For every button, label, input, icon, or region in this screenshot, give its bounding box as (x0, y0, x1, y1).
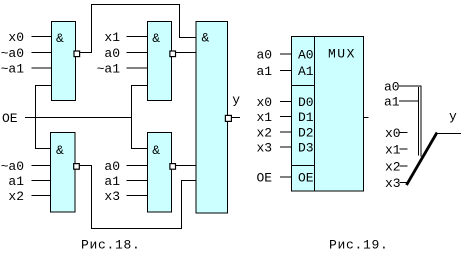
switch model: wire a1 (399, 100, 419, 102)
svg-text:x1: x1 (257, 110, 273, 125)
svg-text:~a0: ~a0 (1, 46, 24, 61)
svg-text:x2: x2 (257, 126, 273, 141)
wire OE branch to U1 pin4 (36, 86, 52, 118)
switch model: inner bus line (418, 87, 420, 156)
svg-text:A0: A0 (298, 48, 314, 63)
mux U6 body (292, 37, 364, 192)
wire a1 to A1 (280, 70, 292, 72)
wire ~a0 to U3 pin2 (32, 165, 51, 167)
mux U6 separator A/D (292, 85, 315, 87)
svg-text:a1: a1 (8, 174, 24, 189)
U5 output bubble (225, 115, 231, 121)
svg-text:D0: D0 (298, 95, 314, 110)
svg-text:x3: x3 (385, 176, 401, 191)
wire ~a1 to U1 pin3 (32, 67, 52, 69)
svg-text:A1: A1 (298, 64, 314, 79)
wire U2 output to U5 input2 (176, 52, 197, 54)
svg-text:a1: a1 (384, 95, 400, 110)
svg-text:Рис.19.: Рис.19. (329, 238, 389, 253)
svg-text:&: & (152, 31, 160, 46)
nand gate U3 body (51, 133, 76, 213)
nand gate U2 body (148, 22, 172, 101)
svg-text:a0: a0 (257, 48, 273, 63)
wire x2 to D2 (280, 131, 292, 133)
svg-text:OE: OE (257, 171, 273, 186)
switch model: contact stub x2 (400, 165, 408, 167)
nand gate U5 body (196, 22, 228, 214)
U2 output bubble (170, 51, 176, 57)
svg-text:x1: x1 (104, 30, 120, 45)
wire x3 to U4 pin4 (127, 195, 148, 197)
svg-text:a1: a1 (257, 64, 273, 79)
svg-text:&: & (202, 31, 210, 46)
wire U3 output to U5 input4 (80, 166, 197, 229)
wire U5 output y (232, 117, 240, 119)
svg-text:x3: x3 (257, 141, 273, 156)
switch model: contact stub x0 (400, 132, 408, 134)
svg-text:D1: D1 (298, 110, 314, 125)
svg-text:x0: x0 (257, 95, 273, 110)
U1 output bubble (74, 51, 80, 57)
switch model: contact stub x3 (400, 182, 408, 184)
wire x1 to U2 pin1 (127, 36, 148, 38)
mux U6 output stub (364, 117, 369, 119)
switch model: wire a0 and outer bus line (399, 86, 421, 157)
mux U6 divider (314, 37, 316, 192)
svg-text:x0: x0 (8, 30, 24, 45)
U3 output bubble (74, 164, 80, 170)
svg-text:~a0: ~a0 (1, 159, 24, 174)
svg-text:&: & (56, 143, 64, 158)
svg-text:x1: x1 (385, 143, 401, 158)
svg-text:D3: D3 (298, 141, 314, 156)
wire U4 output to U5 input3 (176, 165, 197, 167)
svg-text:a0: a0 (104, 159, 120, 174)
svg-text:a0: a0 (384, 80, 400, 95)
svg-text:y: y (449, 109, 457, 124)
wire OE branch to U4 pin1 (132, 118, 148, 149)
svg-text:x2: x2 (8, 189, 24, 204)
wire ~a0 to U1 pin2 (32, 52, 52, 54)
svg-text:x0: x0 (385, 126, 401, 141)
svg-text:&: & (56, 31, 64, 46)
mux U6 separator D/OE (292, 165, 315, 167)
wire OE branch to U2 pin4 (132, 86, 148, 118)
svg-text:x3: x3 (104, 189, 120, 204)
wire OE branch to U3 pin1 (36, 118, 51, 149)
svg-text:&: & (152, 143, 160, 158)
wire OE to OE pin (280, 176, 292, 178)
wire x3 to D3 (280, 146, 292, 148)
wire x1 to D1 (280, 116, 292, 118)
wire a0 to A0 (280, 53, 292, 55)
svg-text:a0: a0 (104, 46, 120, 61)
wire x0 to U1 pin1 (32, 36, 52, 38)
svg-text:D2: D2 (298, 126, 314, 141)
nand gate U4 body (148, 133, 172, 213)
wire x0 to D0 (280, 101, 292, 103)
wire U1 output to U5 input1 (80, 5, 197, 53)
svg-text:~a1: ~a1 (1, 62, 25, 77)
nand gate U1 body (52, 22, 76, 101)
svg-text:MUX: MUX (328, 47, 356, 62)
wire x2 to U3 pin4 (32, 195, 51, 197)
svg-text:Рис.18.: Рис.18. (81, 238, 141, 253)
svg-text:~a1: ~a1 (97, 62, 121, 77)
switch model: contact stub x1 (400, 148, 408, 150)
wire OE bus (25, 117, 132, 119)
wire ~a1 to U2 pin3 (127, 67, 148, 69)
svg-text:y: y (232, 93, 240, 108)
svg-text:x2: x2 (385, 160, 401, 175)
svg-text:OE: OE (298, 171, 314, 186)
wire a1 to U3 pin3 (32, 180, 51, 182)
wire a0 to U4 pin2 (127, 165, 148, 167)
svg-text:a1: a1 (104, 174, 120, 189)
wire a1 to U4 pin3 (127, 180, 148, 182)
switch model: wire output y (438, 133, 462, 135)
switch model: wiper arm (407, 133, 438, 186)
svg-text:OE: OE (2, 111, 18, 126)
U4 output bubble (170, 164, 176, 170)
wire a0 to U2 pin2 (127, 52, 148, 54)
